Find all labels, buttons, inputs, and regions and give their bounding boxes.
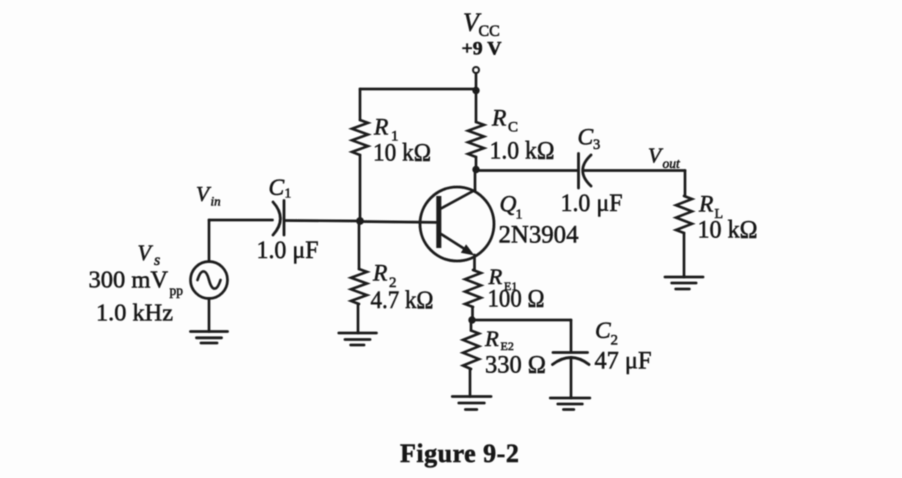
wire collector node to C3 <box>476 169 577 172</box>
wire emitter to RE1 <box>473 255 476 270</box>
svg-text:10 kΩ: 10 kΩ <box>698 217 758 244</box>
svg-text:47 μF: 47 μF <box>595 348 652 375</box>
label RE2 <box>484 326 514 353</box>
wire Vs to ground <box>208 299 211 332</box>
wire C2 top <box>570 320 573 352</box>
svg-text:pp: pp <box>170 283 184 298</box>
label R2 <box>372 261 397 292</box>
svg-text:R: R <box>484 326 499 351</box>
svg-text:out: out <box>663 156 682 171</box>
wire emitter node to RE2 <box>470 321 473 331</box>
wire RL bottom <box>683 233 686 277</box>
ground RE2 <box>452 397 491 410</box>
capacitor C1 <box>273 201 284 236</box>
label RL <box>698 192 723 223</box>
ground R2 <box>339 333 377 345</box>
wire Vin horizontal <box>209 219 273 222</box>
resistor RL <box>676 196 692 233</box>
svg-text:Figure 9-2: Figure 9-2 <box>400 439 519 468</box>
wire R2 bottom <box>357 304 360 333</box>
Vcc terminal <box>473 67 479 73</box>
svg-text:in: in <box>211 194 221 209</box>
label C1 <box>269 175 292 201</box>
svg-text:1.0 μF: 1.0 μF <box>561 190 623 217</box>
svg-text:R: R <box>373 115 388 141</box>
svg-text:V: V <box>138 240 154 265</box>
capacitor C2 <box>553 353 590 365</box>
wire RE2 bottom <box>469 369 472 397</box>
svg-text:CC: CC <box>479 23 500 40</box>
junction emitter node <box>468 316 475 323</box>
ground RL <box>665 277 703 289</box>
svg-text:1: 1 <box>285 186 292 201</box>
svg-text:4.7 kΩ: 4.7 kΩ <box>371 287 434 314</box>
svg-text:R: R <box>491 106 506 132</box>
wire base node to R2 <box>358 221 361 269</box>
svg-text:2: 2 <box>611 333 619 349</box>
resistor R2 <box>351 269 367 304</box>
junction collector node <box>472 166 479 173</box>
wire RC top <box>475 92 478 122</box>
wire base node to transistor <box>360 220 436 224</box>
wire C3 to Vout corner <box>583 169 685 172</box>
svg-text:300 mV: 300 mV <box>89 267 169 294</box>
wire C2 bottom <box>570 359 573 398</box>
wire RE1 bottom <box>471 307 474 318</box>
resistor RC <box>468 122 484 157</box>
label RE1 <box>488 264 518 293</box>
svg-text:10 kΩ: 10 kΩ <box>373 140 431 167</box>
ground Vs <box>191 332 228 344</box>
source Vs <box>191 262 228 299</box>
wire Vcc terminal to rail <box>475 74 478 90</box>
label Vs <box>138 240 161 269</box>
value 300 mVpp <box>89 267 184 299</box>
svg-text:Q: Q <box>500 192 517 218</box>
label Q1 <box>500 192 523 223</box>
wire R1 top <box>359 89 362 120</box>
ground C2 <box>550 398 590 410</box>
svg-text:+9 V: +9 V <box>462 39 502 60</box>
svg-text:R: R <box>372 261 387 287</box>
wire Vin corner down <box>208 220 211 262</box>
net Vout label <box>648 144 681 172</box>
wire R1 bottom to base node <box>359 155 362 221</box>
svg-text:3: 3 <box>593 137 600 153</box>
capacitor C3 <box>579 154 592 189</box>
svg-text:R: R <box>698 192 713 218</box>
transistor Q1 <box>420 187 494 261</box>
wire emitter node to C2 <box>472 319 571 322</box>
svg-text:C: C <box>595 318 611 344</box>
svg-text:2N3904: 2N3904 <box>499 220 579 249</box>
junction base node <box>356 217 364 225</box>
svg-text:100 Ω: 100 Ω <box>488 286 545 313</box>
svg-text:C: C <box>269 175 285 201</box>
label C3 <box>578 125 601 154</box>
wire top rail <box>360 88 476 91</box>
resistor R1 <box>352 120 368 155</box>
label RC <box>491 106 518 136</box>
label R1 <box>373 115 399 145</box>
junction Vcc rail <box>472 87 479 94</box>
svg-text:C: C <box>508 120 518 136</box>
svg-text:C: C <box>578 125 594 151</box>
wire C1 to base node <box>286 219 361 222</box>
resistor RE1 <box>465 270 481 307</box>
svg-text:330 Ω: 330 Ω <box>485 352 546 379</box>
label Vin <box>196 182 221 209</box>
label C2 <box>595 318 618 349</box>
wire RC bottom <box>475 157 478 169</box>
svg-text:1.0 kΩ: 1.0 kΩ <box>490 138 555 165</box>
resistor RE2 <box>463 331 479 370</box>
wire collector junction to transistor <box>474 170 477 191</box>
svg-text:1.0 kHz: 1.0 kHz <box>96 300 173 327</box>
wire Vout corner down to RL <box>684 171 687 197</box>
net Vcc label <box>463 8 500 40</box>
svg-text:1.0 μF: 1.0 μF <box>257 237 319 264</box>
